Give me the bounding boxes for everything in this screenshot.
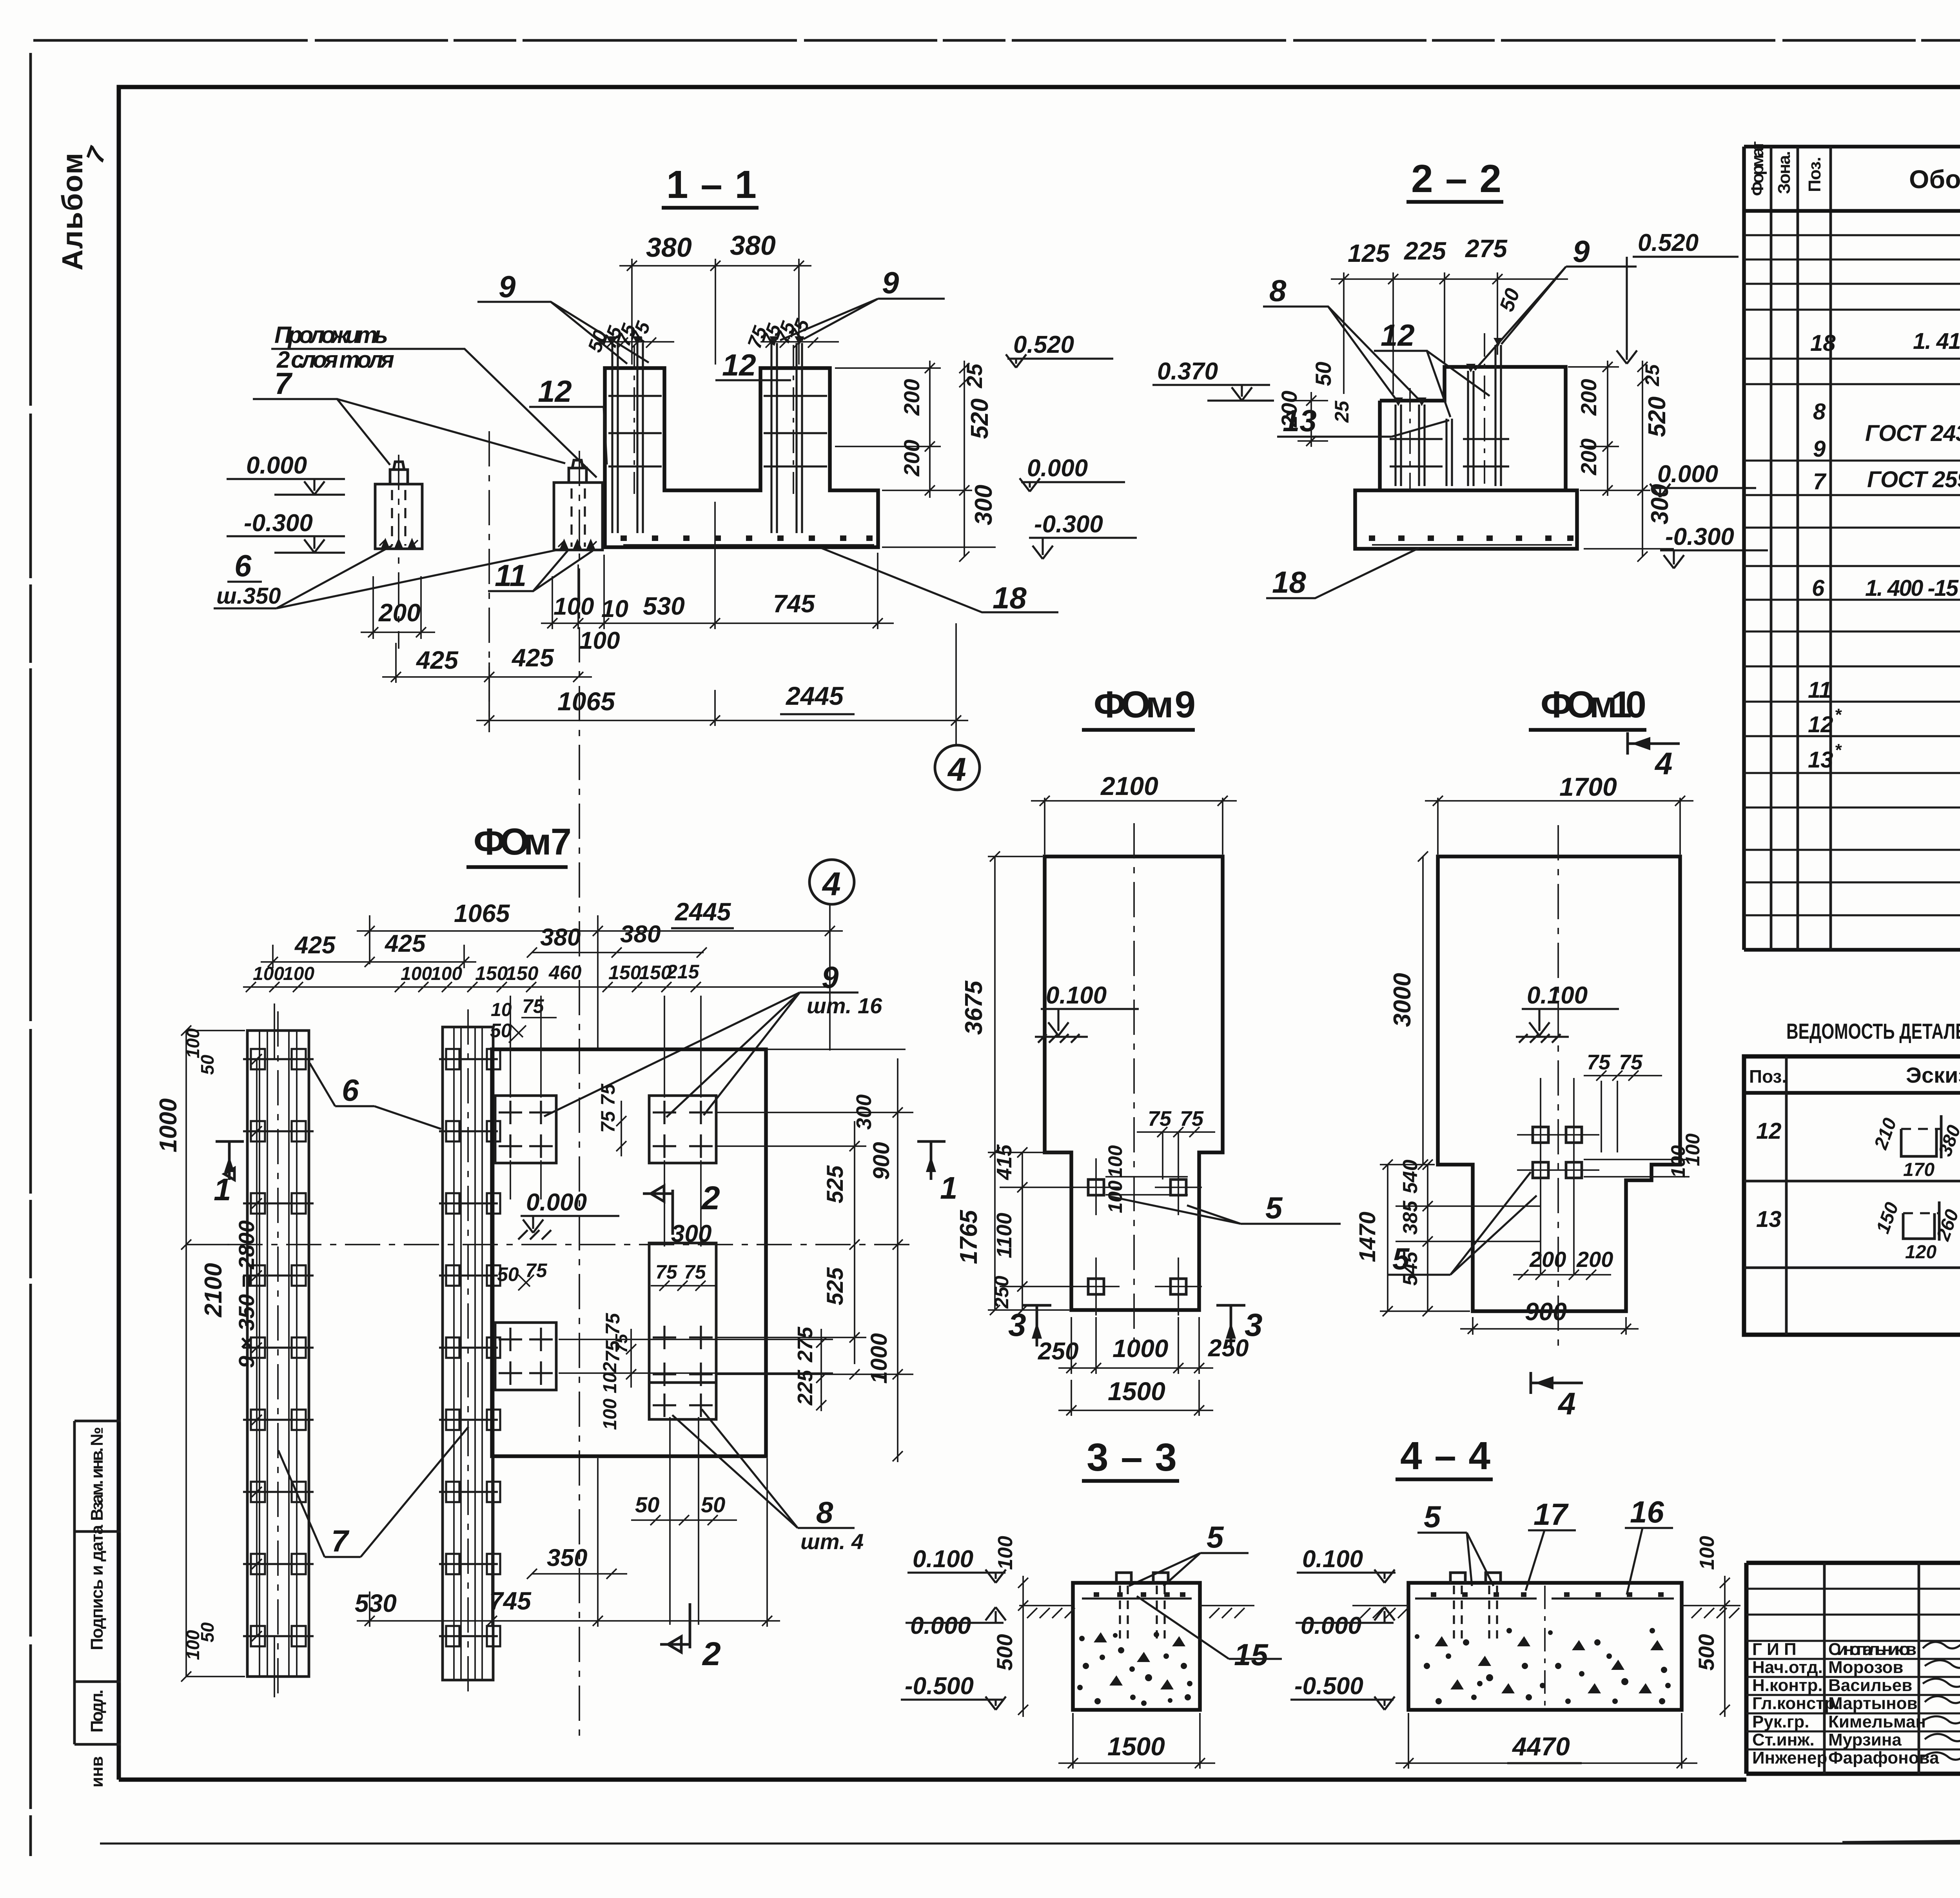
svg-text:15: 15	[1234, 1637, 1269, 1672]
svg-text:2 слоя толя: 2 слоя толя	[276, 347, 394, 373]
svg-text:100: 100	[253, 964, 284, 984]
svg-text:300: 300	[852, 1094, 876, 1130]
svg-text:500: 500	[1694, 1634, 1719, 1671]
svg-text:385: 385	[1399, 1200, 1422, 1235]
svg-text:-0.300: -0.300	[244, 510, 313, 537]
svg-text:Синопальников: Синопальников	[1828, 1640, 1916, 1659]
svg-text:2 – 2: 2 – 2	[1411, 157, 1501, 201]
svg-text:18: 18	[993, 581, 1027, 615]
svg-text:4470: 4470	[1512, 1732, 1570, 1761]
svg-text:1. 400 -15 В1. 120 - 04: 1. 400 -15 В1. 120 - 04	[1865, 575, 1960, 601]
svg-text:50: 50	[635, 1492, 659, 1517]
svg-text:300: 300	[970, 485, 997, 525]
svg-text:8: 8	[1269, 273, 1287, 308]
svg-text:3000: 3000	[1389, 973, 1416, 1027]
svg-text:Формат: Формат	[1748, 141, 1767, 196]
svg-text:1470: 1470	[1355, 1212, 1380, 1262]
svg-text:75: 75	[1180, 1107, 1204, 1130]
svg-text:100: 100	[401, 964, 432, 984]
svg-text:0.370: 0.370	[1157, 358, 1218, 385]
svg-text:6: 6	[342, 1073, 359, 1107]
svg-text:250: 250	[1038, 1338, 1078, 1365]
svg-text:Проложить: Проложить	[274, 322, 388, 348]
svg-text:2100: 2100	[1100, 771, 1158, 800]
svg-text:12: 12	[1808, 712, 1833, 737]
svg-text:2445: 2445	[675, 898, 731, 926]
svg-text:*: *	[1835, 740, 1842, 760]
svg-text:425: 425	[384, 930, 426, 957]
svg-text:530: 530	[643, 592, 685, 620]
svg-text:380: 380	[620, 921, 661, 948]
svg-text:11: 11	[495, 558, 526, 593]
svg-text:-0.500: -0.500	[905, 1673, 974, 1700]
svg-text:520: 520	[966, 399, 993, 439]
svg-text:745: 745	[773, 590, 815, 618]
svg-text:1765: 1765	[955, 1210, 982, 1264]
svg-text:0.000: 0.000	[910, 1612, 971, 1639]
svg-text:8: 8	[816, 1495, 833, 1530]
svg-text:380: 380	[730, 230, 776, 261]
svg-text:Г И П: Г И П	[1752, 1640, 1797, 1659]
svg-text:75: 75	[1148, 1107, 1172, 1130]
svg-text:75 75: 75 75	[597, 1083, 619, 1133]
svg-text:500: 500	[992, 1634, 1017, 1671]
svg-text:200: 200	[1576, 379, 1601, 416]
svg-text:200: 200	[1576, 439, 1601, 475]
svg-text:1100: 1100	[993, 1213, 1016, 1258]
svg-text:1: 1	[214, 1172, 231, 1207]
svg-text:745: 745	[489, 1587, 532, 1615]
svg-text:13: 13	[1756, 1207, 1782, 1232]
svg-text:Подпись и дата: Подпись и дата	[87, 1524, 107, 1650]
svg-text:7: 7	[331, 1524, 350, 1558]
svg-text:525: 525	[822, 1267, 848, 1305]
svg-text:5: 5	[1265, 1190, 1283, 1225]
svg-text:75: 75	[525, 1259, 548, 1281]
svg-text:0.000: 0.000	[1027, 455, 1088, 482]
svg-text:1500: 1500	[1107, 1732, 1165, 1761]
svg-text:1065: 1065	[557, 687, 615, 716]
svg-text:инв: инв	[87, 1756, 107, 1787]
svg-text:100: 100	[1696, 1536, 1719, 1570]
svg-text:75: 75	[1587, 1051, 1611, 1074]
svg-text:12: 12	[1381, 318, 1415, 352]
svg-text:425: 425	[416, 646, 459, 674]
svg-text:Нач.отд.: Нач.отд.	[1752, 1658, 1823, 1677]
svg-text:50: 50	[197, 1622, 218, 1642]
svg-text:75: 75	[1619, 1051, 1643, 1074]
svg-text:шт. 4: шт. 4	[800, 1529, 864, 1554]
svg-text:225: 225	[793, 1370, 817, 1406]
svg-text:200: 200	[1576, 1247, 1613, 1272]
svg-text:530: 530	[355, 1589, 397, 1617]
svg-text:Инженер: Инженер	[1752, 1748, 1827, 1767]
svg-text:Взам. инв. №: Взам. инв. №	[87, 1427, 107, 1521]
svg-text:9: 9	[882, 265, 899, 300]
svg-text:1 – 1: 1 – 1	[666, 163, 757, 207]
svg-text:5: 5	[1424, 1499, 1441, 1534]
svg-text:170: 170	[1903, 1159, 1935, 1180]
svg-text:1000: 1000	[866, 1333, 892, 1384]
svg-text:-0.300: -0.300	[1665, 523, 1734, 550]
svg-text:425: 425	[294, 932, 336, 959]
svg-text:Васильев: Васильев	[1828, 1676, 1912, 1695]
svg-text:125: 125	[1348, 239, 1390, 267]
svg-text:50: 50	[701, 1492, 725, 1517]
svg-text:7: 7	[274, 366, 293, 401]
svg-text:0.100: 0.100	[1302, 1546, 1363, 1573]
svg-text:425: 425	[511, 644, 554, 672]
svg-text:ВЕДОМОСТЬ ДЕТАЛЕЙ: ВЕДОМОСТЬ ДЕТАЛЕЙ	[1786, 1019, 1960, 1043]
svg-text:12: 12	[722, 348, 756, 382]
svg-text:10: 10	[491, 1000, 512, 1020]
svg-text:0.100: 0.100	[1046, 982, 1107, 1009]
svg-text:4: 4	[822, 866, 841, 902]
svg-text:0.520: 0.520	[1013, 331, 1074, 358]
svg-text:8: 8	[1813, 399, 1826, 425]
svg-text:100: 100	[579, 627, 620, 654]
svg-text:4: 4	[1557, 1386, 1576, 1421]
svg-text:415: 415	[993, 1144, 1016, 1180]
svg-text:3: 3	[1008, 1307, 1026, 1343]
svg-text:Гл.констр.: Гл.констр.	[1752, 1694, 1840, 1713]
svg-text:100: 100	[183, 1028, 203, 1058]
svg-text:ФОм 9: ФОм 9	[1094, 684, 1196, 726]
svg-text:25: 25	[962, 363, 987, 388]
svg-text:Н.контр.: Н.контр.	[1752, 1676, 1823, 1695]
svg-text:540: 540	[1399, 1159, 1422, 1194]
svg-text:0.000: 0.000	[246, 452, 307, 479]
svg-text:шт. 16: шт. 16	[807, 993, 882, 1018]
svg-text:16: 16	[1630, 1495, 1664, 1529]
svg-text:50: 50	[497, 1263, 519, 1285]
svg-text:Ст.инж.: Ст.инж.	[1752, 1730, 1815, 1749]
svg-text:6: 6	[234, 548, 252, 583]
svg-text:Зона.: Зона.	[1775, 151, 1794, 194]
svg-text:3 – 3: 3 – 3	[1087, 1435, 1177, 1479]
svg-text:17: 17	[1534, 1497, 1569, 1531]
svg-text:6: 6	[1812, 575, 1825, 601]
svg-text:3675: 3675	[960, 980, 987, 1035]
svg-text:75: 75	[684, 1261, 706, 1283]
svg-text:900: 900	[869, 1142, 894, 1180]
svg-text:ФОм10: ФОм10	[1541, 684, 1646, 726]
svg-text:50: 50	[1311, 362, 1336, 386]
svg-text:100: 100	[554, 593, 594, 620]
svg-text:Морозов: Морозов	[1828, 1658, 1903, 1677]
svg-text:9: 9	[499, 269, 516, 304]
svg-text:100 102: 100 102	[600, 1362, 621, 1430]
svg-text:120: 120	[1905, 1242, 1936, 1263]
svg-text:150: 150	[475, 962, 508, 984]
svg-text:1000: 1000	[1112, 1334, 1168, 1363]
svg-text:100: 100	[1682, 1133, 1704, 1166]
svg-text:2: 2	[701, 1179, 720, 1216]
svg-text:4 – 4: 4 – 4	[1400, 1434, 1490, 1478]
svg-text:100: 100	[283, 964, 314, 984]
svg-text:-0.500: -0.500	[1294, 1673, 1363, 1700]
svg-text:50: 50	[197, 1054, 218, 1075]
svg-text:100: 100	[431, 964, 462, 984]
svg-text:2: 2	[702, 1635, 721, 1672]
svg-text:Подл.: Подл.	[87, 1689, 107, 1733]
svg-text:1500: 1500	[1108, 1377, 1165, 1406]
svg-text:0.100: 0.100	[1527, 982, 1588, 1009]
svg-text:0.000: 0.000	[1301, 1612, 1361, 1639]
svg-text:ФОм 7: ФОм 7	[474, 821, 572, 863]
svg-text:215: 215	[666, 961, 700, 983]
svg-text:520: 520	[1644, 397, 1671, 437]
svg-text:4: 4	[1654, 746, 1673, 781]
svg-text:275: 275	[793, 1326, 817, 1363]
svg-text:350: 350	[547, 1544, 587, 1571]
svg-text:380: 380	[646, 232, 692, 263]
svg-text:Фарафонова: Фарафонова	[1828, 1748, 1939, 1767]
svg-text:ГОСТ 24379.1- 80: ГОСТ 24379.1- 80	[1865, 421, 1960, 446]
svg-text:*: *	[1835, 705, 1842, 724]
svg-text:10: 10	[601, 595, 628, 622]
svg-text:1700: 1700	[1559, 772, 1617, 801]
svg-text:1065: 1065	[454, 899, 510, 927]
svg-text:7: 7	[1813, 469, 1827, 494]
svg-text:100: 100	[1104, 1145, 1126, 1178]
svg-text:9: 9	[1573, 234, 1590, 269]
svg-text:18: 18	[1272, 565, 1306, 599]
svg-text:0.520: 0.520	[1638, 229, 1699, 256]
svg-text:ш.350: ш.350	[216, 583, 281, 609]
svg-text:200: 200	[899, 379, 924, 416]
svg-text:1000: 1000	[155, 1098, 182, 1152]
svg-text:Поз.: Поз.	[1749, 1066, 1787, 1087]
svg-text:Рук.гр.: Рук.гр.	[1752, 1712, 1809, 1731]
svg-text:Эскиз: Эскиз	[1906, 1063, 1960, 1087]
svg-text:545: 545	[1399, 1251, 1422, 1286]
svg-text:12: 12	[1756, 1118, 1782, 1144]
svg-text:1. 410 - 3 В. 1: 1. 410 - 3 В. 1	[1913, 328, 1960, 354]
svg-text:75: 75	[612, 1334, 631, 1353]
svg-text:Поз.: Поз.	[1805, 157, 1824, 192]
svg-text:2445: 2445	[785, 681, 844, 710]
svg-text:Мартынов: Мартынов	[1828, 1694, 1918, 1713]
svg-text:11: 11	[1808, 677, 1831, 703]
svg-text:300: 300	[671, 1220, 711, 1247]
svg-text:900: 900	[1525, 1297, 1567, 1326]
svg-text:Обозначение: Обозначение	[1909, 165, 1960, 194]
svg-text:200: 200	[899, 440, 924, 477]
svg-text:9: 9	[1813, 436, 1826, 462]
svg-text:0.000: 0.000	[1657, 461, 1718, 488]
svg-text:200: 200	[1529, 1247, 1566, 1272]
svg-text:275: 275	[1465, 234, 1508, 263]
svg-text:250: 250	[991, 1276, 1013, 1309]
svg-text:25: 25	[1331, 400, 1353, 423]
svg-text:225: 225	[1404, 237, 1446, 265]
svg-text:12: 12	[538, 374, 572, 408]
svg-text:9: 9	[822, 960, 839, 994]
svg-text:Мурзина: Мурзина	[1828, 1730, 1902, 1749]
svg-text:0.000: 0.000	[526, 1189, 587, 1216]
svg-text:ГОСТ 2591- 71: ГОСТ 2591- 71	[1867, 467, 1960, 492]
svg-text:Кимельман: Кимельман	[1828, 1712, 1926, 1731]
svg-text:150: 150	[608, 962, 641, 983]
svg-text:-0.300: -0.300	[1034, 511, 1103, 538]
svg-text:9 × 350 = 2800: 9 × 350 = 2800	[234, 1220, 259, 1368]
svg-text:100: 100	[994, 1536, 1017, 1570]
svg-text:380: 380	[540, 924, 581, 951]
svg-text:250: 250	[1208, 1335, 1249, 1362]
svg-text:0.100: 0.100	[913, 1546, 973, 1573]
svg-text:200: 200	[1277, 391, 1301, 428]
svg-text:4: 4	[947, 751, 966, 788]
svg-text:75: 75	[655, 1261, 678, 1283]
svg-text:460: 460	[548, 962, 582, 983]
svg-text:5: 5	[1207, 1520, 1224, 1554]
svg-text:1: 1	[940, 1170, 958, 1205]
svg-text:525: 525	[822, 1165, 848, 1203]
svg-text:150: 150	[506, 962, 539, 984]
svg-text:18: 18	[1810, 330, 1836, 356]
svg-text:13: 13	[1808, 747, 1833, 773]
svg-text:2100: 2100	[200, 1263, 227, 1317]
svg-text:25: 25	[1641, 364, 1663, 386]
